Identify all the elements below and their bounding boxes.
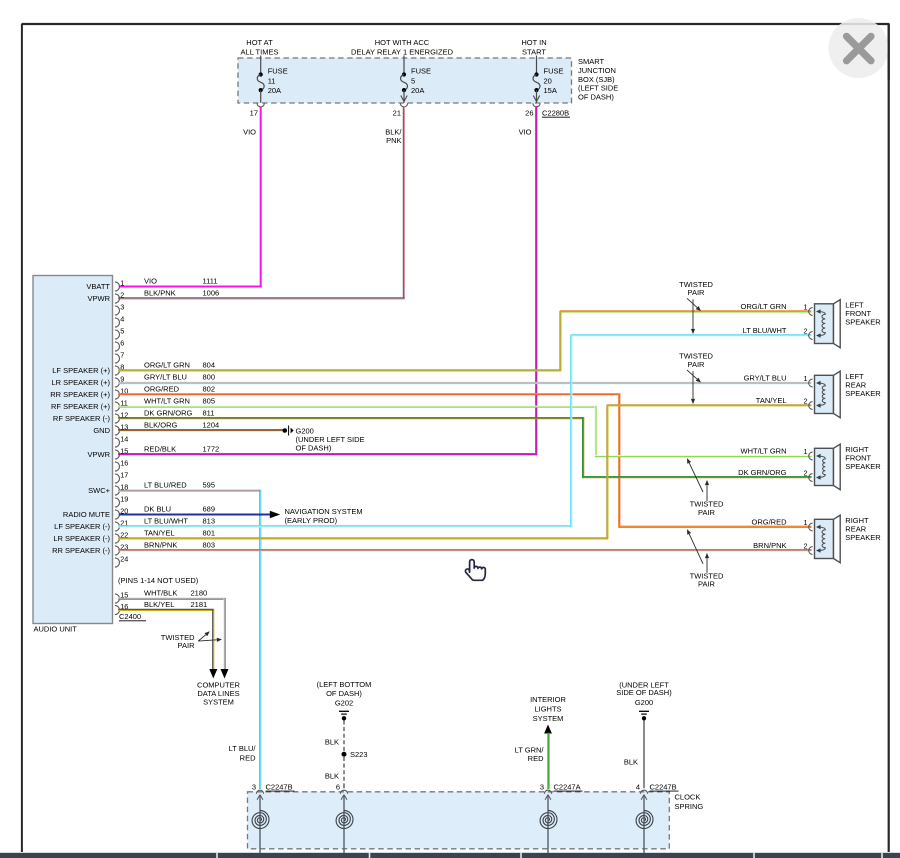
svg-text:BRN/PNK: BRN/PNK — [144, 541, 177, 550]
svg-text:FUSE: FUSE — [268, 67, 288, 76]
wire WHT/LT GRN 805 (pin 11 to RF speaker +) — [118, 405, 596, 407]
twisted pair marker (computer data lines) — [161, 631, 222, 650]
svg-text:SYSTEM: SYSTEM — [533, 714, 564, 723]
audio unit — [33, 276, 113, 624]
svg-text:1: 1 — [120, 279, 124, 288]
svg-text:1204: 1204 — [203, 421, 220, 430]
wire LT BLU/WHT 813 (pin 21 to LF speaker -) — [118, 525, 572, 527]
wire RED/BLK 1772 (fuse 20 to audio pin 15) — [535, 106, 537, 455]
svg-text:2: 2 — [803, 327, 807, 336]
svg-text:VPWR: VPWR — [88, 450, 111, 459]
interior lights system arrow — [544, 725, 552, 734]
svg-text:2: 2 — [803, 397, 807, 406]
ground G200 — [283, 426, 365, 453]
svg-text:HOT IN: HOT IN — [521, 38, 546, 47]
computer data lines system arrows — [209, 669, 217, 679]
wire BLK/YEL 2181 (pin 16 to computer data lines) — [118, 608, 214, 610]
svg-text:LIGHTS: LIGHTS — [534, 705, 561, 714]
wire GRY/LT BLU 800 (pin 9 to LR speaker +) — [118, 381, 811, 383]
left rear speaker — [803, 371, 881, 418]
svg-text:GND: GND — [93, 426, 110, 435]
svg-text:2: 2 — [803, 469, 807, 478]
svg-text:(LEFT BOTTOM: (LEFT BOTTOM — [317, 680, 372, 689]
svg-text:3: 3 — [120, 303, 124, 312]
svg-text:1111: 1111 — [203, 277, 218, 286]
svg-text:3: 3 — [540, 782, 544, 791]
connector pin 17 — [257, 103, 264, 107]
svg-text:4: 4 — [636, 782, 640, 791]
svg-text:RR SPEAKER (-): RR SPEAKER (-) — [52, 546, 110, 555]
svg-text:2: 2 — [120, 291, 124, 300]
svg-text:RED: RED — [240, 753, 256, 762]
svg-text:DK GRN/ORG: DK GRN/ORG — [144, 409, 193, 418]
svg-text:SPEAKER: SPEAKER — [845, 389, 881, 398]
svg-text:LF SPEAKER (-): LF SPEAKER (-) — [54, 522, 110, 531]
svg-text:SPRING: SPRING — [675, 802, 704, 811]
svg-text:G200: G200 — [635, 698, 653, 707]
svg-text:RF SPEAKER (+): RF SPEAKER (+) — [51, 402, 110, 411]
svg-text:WHT/BLK: WHT/BLK — [144, 589, 177, 598]
svg-text:SPEAKER: SPEAKER — [845, 533, 881, 542]
wire WHT/BLK 2180 (pin 15 to computer data lines) — [118, 597, 225, 599]
close button — [829, 18, 889, 80]
svg-text:PAIR: PAIR — [698, 508, 716, 517]
connector pin 21 — [400, 103, 407, 107]
svg-text:SMART: SMART — [578, 57, 605, 66]
svg-text:PNK: PNK — [386, 136, 401, 145]
svg-text:VBATT: VBATT — [86, 282, 110, 291]
bottom toolbar — [0, 853, 900, 858]
svg-text:WHT/LT GRN: WHT/LT GRN — [144, 397, 190, 406]
wire BLK (S223 to clock spring pin 6) — [343, 757, 345, 785]
svg-text:5: 5 — [411, 77, 415, 86]
svg-text:7: 7 — [120, 351, 124, 360]
svg-text:DK GRN/ORG: DK GRN/ORG — [738, 468, 787, 477]
svg-text:802: 802 — [203, 385, 216, 394]
svg-text:PAIR: PAIR — [688, 360, 706, 369]
svg-text:C2247A: C2247A — [554, 782, 581, 791]
svg-text:GRY/LT BLU: GRY/LT BLU — [744, 374, 787, 383]
svg-text:RED: RED — [528, 754, 544, 763]
svg-text:C2247B: C2247B — [266, 782, 293, 791]
wire BLK (G200 to clock spring pin 4) — [643, 721, 645, 789]
twisted pair marker (RR speaker) — [687, 529, 724, 588]
svg-text:ORG/LT GRN: ORG/LT GRN — [741, 302, 787, 311]
svg-text:SWC+: SWC+ — [88, 486, 110, 495]
svg-text:DELAY RELAY 1 ENERGIZED: DELAY RELAY 1 ENERGIZED — [351, 48, 454, 57]
audio unit pin function labels — [50, 282, 110, 555]
wire ORG/LT GRN 804 (pin 8 to LF speaker +) — [118, 369, 561, 371]
wire ORG/RED 802 (pin 10 to RR speaker +) — [118, 393, 620, 395]
svg-text:ORG/RED: ORG/RED — [751, 518, 787, 527]
svg-text:G202: G202 — [335, 699, 353, 708]
svg-text:BLK: BLK — [325, 771, 339, 780]
svg-text:20A: 20A — [268, 86, 281, 95]
wire VIO 1111 (fuse 11 to audio pin 1) — [260, 107, 262, 287]
svg-text:CLOCK: CLOCK — [675, 793, 701, 802]
svg-text:BLK/PNK: BLK/PNK — [144, 289, 176, 298]
twisted pair marker (LR speaker) — [679, 352, 713, 405]
svg-text:20: 20 — [544, 77, 552, 86]
svg-text:2181: 2181 — [191, 600, 208, 609]
svg-text:(LEFT SIDE: (LEFT SIDE — [578, 84, 618, 93]
fuse 5 20A — [403, 56, 405, 75]
svg-text:LT BLU/WHT: LT BLU/WHT — [743, 326, 787, 335]
svg-text:BRN/PNK: BRN/PNK — [753, 541, 786, 550]
svg-text:BOX (SJB): BOX (SJB) — [578, 75, 615, 84]
svg-text:1: 1 — [803, 303, 807, 312]
svg-text:HOT WITH ACC: HOT WITH ACC — [375, 38, 430, 47]
svg-text:15A: 15A — [544, 86, 557, 95]
svg-text:PAIR: PAIR — [698, 580, 716, 589]
svg-text:SYSTEM: SYSTEM — [203, 697, 234, 706]
svg-text:SPEAKER: SPEAKER — [845, 462, 881, 471]
svg-text:LT BLU/WHT: LT BLU/WHT — [144, 517, 188, 526]
svg-text:595: 595 — [203, 481, 216, 490]
svg-text:PAIR: PAIR — [688, 288, 706, 297]
svg-text:TAN/YEL: TAN/YEL — [756, 396, 787, 405]
svg-text:NAVIGATION SYSTEM: NAVIGATION SYSTEM — [285, 507, 363, 516]
svg-text:14: 14 — [120, 435, 128, 444]
wire DK GRN/ORG 811 (pin 12 to RF speaker -) — [118, 417, 584, 419]
svg-text:19: 19 — [120, 495, 128, 504]
wire LT BLU/RED 595 (pin 18 to clock spring pin 3) — [118, 489, 261, 491]
svg-text:813: 813 — [203, 517, 216, 526]
connector C2247B pin 3 — [252, 782, 295, 800]
svg-text:6: 6 — [120, 339, 124, 348]
wire TAN/YEL 801 (pin 22 to LR speaker -) — [118, 537, 608, 539]
svg-text:RED/BLK: RED/BLK — [144, 445, 176, 454]
connector C2247B pin 4 — [636, 782, 679, 800]
svg-text:ORG/RED: ORG/RED — [144, 385, 180, 394]
fuse 11 20A — [260, 56, 262, 75]
svg-text:OF DASH): OF DASH) — [578, 92, 614, 101]
svg-text:801: 801 — [203, 529, 216, 538]
svg-text:C2247B: C2247B — [650, 782, 677, 791]
clock spring coil at x=344 — [336, 796, 353, 858]
svg-text:VPWR: VPWR — [88, 294, 111, 303]
svg-text:SIDE OF DASH): SIDE OF DASH) — [616, 688, 672, 697]
svg-text:1: 1 — [803, 374, 807, 383]
svg-text:OF DASH): OF DASH) — [326, 689, 362, 698]
wire BLK/PNK 1006 (fuse 5 to audio pin 2) — [402, 106, 404, 299]
svg-text:S223: S223 — [350, 750, 368, 759]
svg-text:INTERIOR: INTERIOR — [530, 695, 566, 704]
svg-text:START: START — [522, 48, 546, 57]
svg-text:1: 1 — [803, 447, 807, 456]
svg-text:689: 689 — [203, 505, 216, 514]
svg-text:17: 17 — [250, 108, 258, 117]
svg-text:24: 24 — [120, 555, 128, 564]
ground G202 — [317, 680, 372, 721]
svg-text:LR SPEAKER (+): LR SPEAKER (+) — [51, 378, 110, 387]
svg-text:803: 803 — [203, 541, 216, 550]
svg-text:LF SPEAKER (+): LF SPEAKER (+) — [52, 366, 110, 375]
right rear speaker — [803, 515, 881, 563]
svg-text:1772: 1772 — [203, 445, 220, 454]
mouse cursor — [465, 560, 485, 581]
svg-text:5: 5 — [120, 327, 124, 336]
svg-text:HOT AT: HOT AT — [246, 38, 273, 47]
connector C2247A pin 3 — [540, 782, 583, 800]
svg-text:FUSE: FUSE — [544, 67, 564, 76]
connector C2280B pin 26 — [533, 103, 540, 107]
fuse 20 15A — [536, 56, 538, 75]
svg-text:VIO: VIO — [519, 128, 532, 137]
svg-text:JUNCTION: JUNCTION — [578, 66, 616, 75]
svg-text:LT BLU/RED: LT BLU/RED — [144, 481, 187, 490]
svg-text:AUDIO UNIT: AUDIO UNIT — [34, 624, 78, 633]
svg-text:ORG/LT GRN: ORG/LT GRN — [144, 361, 190, 370]
connector pin 6 — [336, 782, 348, 800]
svg-text:SPEAKER: SPEAKER — [845, 318, 881, 327]
svg-text:RADIO MUTE: RADIO MUTE — [63, 510, 110, 519]
left front speaker — [803, 300, 881, 348]
wire LT GRN/RED (clock spring pin 3 to interior lights) — [547, 733, 549, 789]
wire BLK (G202 to splice S223) — [343, 721, 345, 752]
wire DK BLU 689 (pin 20 to navigation system) — [119, 514, 270, 516]
svg-text:805: 805 — [203, 397, 216, 406]
clock spring coil at x=548 — [540, 796, 557, 858]
wire BRN/PNK 803 (pin 23 to RR speaker -) — [118, 549, 811, 551]
connector C2400 pins 1-24 — [115, 279, 128, 568]
svg-text:3: 3 — [252, 782, 256, 791]
svg-text:GRY/LT BLU: GRY/LT BLU — [144, 373, 187, 382]
svg-text:2: 2 — [803, 542, 807, 551]
wire BLK/ORG 1204 (pin 13 to ground G200) — [118, 429, 283, 431]
svg-text:RF SPEAKER (-): RF SPEAKER (-) — [53, 414, 111, 423]
svg-text:20A: 20A — [411, 86, 424, 95]
svg-text:(EARLY PROD): (EARLY PROD) — [285, 516, 338, 525]
twisted pair marker (RF speaker) — [687, 458, 724, 517]
svg-text:26: 26 — [525, 108, 533, 117]
svg-text:ALL TIMES: ALL TIMES — [241, 48, 279, 57]
svg-text:WHT/LT GRN: WHT/LT GRN — [741, 447, 787, 456]
clock spring coil at x=260 — [252, 796, 269, 858]
svg-text:17: 17 — [120, 471, 128, 480]
twisted pair marker (LF speaker) — [679, 280, 713, 334]
svg-text:BLK: BLK — [325, 738, 339, 747]
svg-text:16: 16 — [120, 459, 128, 468]
svg-text:1: 1 — [803, 518, 807, 527]
svg-text:6: 6 — [336, 782, 340, 791]
svg-text:C2400: C2400 — [119, 612, 141, 621]
svg-text:RR SPEAKER (+): RR SPEAKER (+) — [50, 390, 110, 399]
ground G200 (under left side of dash) — [616, 680, 672, 720]
svg-text:811: 811 — [203, 409, 215, 418]
svg-text:4: 4 — [120, 315, 124, 324]
svg-text:21: 21 — [393, 108, 401, 117]
svg-text:DK BLU: DK BLU — [144, 505, 171, 514]
svg-text:11: 11 — [268, 77, 276, 86]
svg-text:FUSE: FUSE — [411, 67, 431, 76]
svg-text:(PINS 1-14 NOT USED): (PINS 1-14 NOT USED) — [118, 576, 199, 585]
clock spring — [248, 792, 670, 849]
svg-text:LR SPEAKER (-): LR SPEAKER (-) — [53, 534, 110, 543]
smart junction box (SJB) — [238, 58, 572, 103]
page frame — [22, 23, 890, 25]
svg-text:VIO: VIO — [144, 277, 157, 286]
right front speaker — [803, 444, 881, 490]
svg-text:LT BLU/: LT BLU/ — [229, 744, 257, 753]
svg-text:PAIR: PAIR — [178, 641, 196, 650]
svg-text:804: 804 — [203, 361, 216, 370]
svg-text:C2280B: C2280B — [542, 108, 569, 117]
svg-text:BLK/YEL: BLK/YEL — [144, 600, 174, 609]
svg-text:800: 800 — [203, 373, 216, 382]
svg-text:15: 15 — [120, 447, 128, 456]
clock spring coil at x=644 — [636, 796, 653, 858]
svg-text:TAN/YEL: TAN/YEL — [144, 529, 175, 538]
connector C2400 pins 15-16 (second connector) — [115, 576, 199, 621]
svg-text:BLK/ORG: BLK/ORG — [144, 421, 178, 430]
svg-text:BLK: BLK — [624, 758, 638, 767]
svg-text:OF DASH): OF DASH) — [296, 443, 332, 452]
svg-text:1006: 1006 — [203, 289, 220, 298]
svg-text:VIO: VIO — [243, 128, 256, 137]
navigation system arrow — [270, 511, 280, 518]
splice S223 — [342, 752, 347, 757]
svg-text:2180: 2180 — [191, 589, 208, 598]
